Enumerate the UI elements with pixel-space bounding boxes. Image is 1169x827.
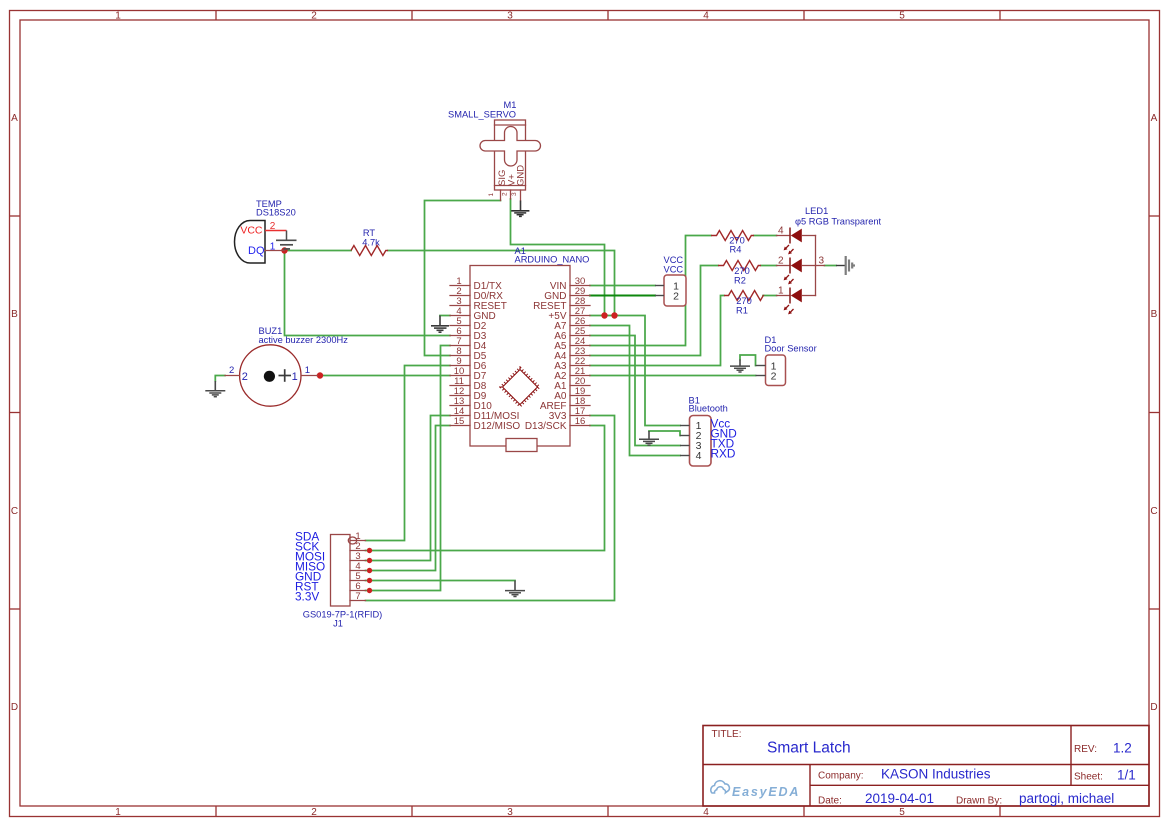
svg-text:1: 1 — [305, 365, 310, 376]
svg-text:M1: M1 — [504, 100, 517, 110]
wire J1 SCK to D13 — [366, 426, 605, 551]
wire D4 to J1 RST — [366, 346, 451, 591]
temperature sensor TEMP DS18S20 — [235, 199, 296, 263]
D1 pin 2 — [756, 371, 777, 383]
wire BUZ1 pin1 to D7 — [318, 375, 451, 377]
VCC pin 1 — [655, 281, 679, 293]
svg-text:D: D — [11, 702, 18, 713]
A1 pin 24 A5 — [554, 336, 590, 352]
A1 pin 8 D5 — [450, 346, 487, 362]
servo pin 1 SIG — [488, 190, 501, 201]
svg-text:KASON Industries: KASON Industries — [881, 767, 991, 782]
junction BUZ1 pin1 — [317, 372, 323, 378]
svg-text:1: 1 — [488, 193, 495, 197]
svg-text:2019-04-01: 2019-04-01 — [865, 791, 934, 806]
A1 pin 4 GND — [450, 306, 496, 322]
svg-text:5: 5 — [899, 807, 905, 818]
ground at D1 pin 1 — [730, 360, 750, 373]
svg-text:Bluetooth: Bluetooth — [689, 404, 728, 414]
svg-text:DS18S20: DS18S20 — [256, 208, 296, 218]
B1 pin 1 Vcc — [680, 417, 730, 433]
wire B1 GND jog — [649, 431, 680, 436]
svg-text:REV:: REV: — [1074, 744, 1097, 755]
wire A4 to R2 — [590, 266, 718, 356]
wire TEMP DQ to RT left — [285, 250, 352, 252]
A1 pin 29 GND — [544, 286, 590, 302]
A1 USB connector — [506, 439, 537, 452]
svg-text:TITLE:: TITLE: — [712, 729, 742, 740]
svg-text:2: 2 — [673, 291, 679, 303]
resistor R4 270 — [711, 231, 754, 255]
TEMP pin 2 — [265, 221, 287, 232]
LED1 element pin 4 — [777, 226, 816, 255]
ground at servo GND pin — [511, 201, 529, 217]
wire GND4 jog — [440, 315, 450, 317]
svg-text:J1: J1 — [333, 619, 343, 629]
wire A3 to R1 — [590, 296, 724, 366]
svg-text:4: 4 — [703, 11, 709, 22]
svg-text:4: 4 — [703, 807, 709, 818]
wire D11 to J1 MOSI — [366, 416, 451, 561]
A1 pin 15 D12/MISO — [450, 416, 520, 432]
svg-text:R2: R2 — [734, 276, 746, 286]
VCC pin 2 — [655, 291, 679, 303]
wire J1 3.3V to 3V3 — [366, 416, 615, 601]
A1 pin 2 D0/RX — [450, 286, 503, 302]
A1 pin 3 RESET — [450, 296, 507, 312]
svg-text:EasyEDA: EasyEDA — [732, 785, 800, 799]
J1 pin 1 circle — [348, 537, 356, 544]
svg-text:15: 15 — [454, 416, 465, 427]
svg-text:R1: R1 — [736, 306, 748, 316]
svg-text:1: 1 — [270, 242, 276, 253]
A1 pin 28 RESET — [533, 296, 590, 312]
svg-text:partogi, michael: partogi, michael — [1019, 791, 1114, 806]
resistor RT 4.7k — [351, 228, 388, 256]
svg-text:2: 2 — [311, 11, 317, 22]
A1 pin 11 D8 — [450, 376, 487, 392]
junction J1 pin4 — [367, 568, 372, 573]
svg-text:1: 1 — [778, 286, 784, 297]
J1 pin 4 MISO — [295, 560, 366, 574]
svg-text:2: 2 — [270, 221, 276, 232]
wire VIN to VCC pin1 — [590, 285, 655, 287]
svg-text:Smart Latch: Smart Latch — [767, 740, 851, 757]
TITLEBLOCK — [703, 726, 1149, 807]
A1 pin 10 D7 — [450, 366, 487, 382]
A1 pin 1 D1/TX — [450, 276, 502, 292]
svg-text:Sheet:: Sheet: — [1074, 772, 1103, 783]
A1 pin 16 D13/SCK — [525, 416, 590, 432]
wire BUZ1 pin2 to ground — [215, 376, 225, 382]
wire TEMP DQ down to D3 — [285, 251, 451, 336]
A1 pin 7 D4 — [450, 336, 487, 352]
A1 pin 13 D10 — [450, 396, 492, 412]
A1 pin 22 A3 — [554, 356, 590, 372]
svg-text:C: C — [11, 506, 18, 517]
A1 pin 18 AREF — [540, 396, 590, 412]
svg-text:2: 2 — [771, 371, 777, 383]
wire LED pin3 to ground — [825, 265, 837, 267]
svg-text:D12/MISO: D12/MISO — [474, 421, 521, 432]
svg-text:3.3V: 3.3V — [295, 590, 319, 604]
junction TEMP DQ — [281, 247, 287, 253]
svg-text:2: 2 — [778, 256, 784, 267]
svg-text:φ5 RGB Transparent: φ5 RGB Transparent — [795, 217, 882, 227]
svg-text:RXD: RXD — [711, 447, 736, 461]
svg-text:R4: R4 — [730, 245, 742, 255]
B1 pin 4 RXD — [680, 447, 735, 463]
svg-text:DQ: DQ — [248, 245, 265, 257]
svg-text:16: 16 — [575, 416, 586, 427]
ground at TEMP pin 2 — [276, 231, 297, 249]
ground at LED1 pin 3 — [846, 256, 855, 275]
svg-text:D13/SCK: D13/SCK — [525, 421, 567, 432]
J1 pin 2 SCK — [295, 540, 366, 554]
D1 pin 1 — [756, 361, 777, 373]
LED1 common bus and pin 3 — [816, 236, 825, 296]
svg-text:active buzzer 2300Hz: active buzzer 2300Hz — [259, 335, 349, 345]
wire D6 to J1 SDA — [366, 366, 451, 541]
LED1 element pin 1 — [777, 286, 816, 315]
svg-text:1: 1 — [115, 807, 121, 818]
svg-text:A: A — [11, 113, 18, 124]
servo pin 2 V+ — [502, 190, 511, 199]
svg-text:VCC: VCC — [664, 265, 684, 275]
svg-text:B: B — [11, 309, 18, 320]
wire R4 to LED pin4 — [754, 235, 777, 237]
svg-text:B: B — [1151, 309, 1158, 320]
svg-text:4: 4 — [696, 450, 702, 462]
BUZ1 pin 2 — [225, 365, 248, 383]
servo motor M1 SMALL_SERVO — [448, 100, 541, 190]
svg-text:VCC: VCC — [664, 255, 684, 265]
J1 pin 6 RST — [295, 580, 366, 594]
wire +5V to B1 Vcc — [590, 316, 680, 426]
ground at J1 pin 5 — [505, 581, 525, 597]
J1 pin 7 3.3V — [295, 590, 366, 604]
svg-text:C: C — [1150, 506, 1157, 517]
ground at A1 pin 4 GND — [431, 316, 449, 333]
svg-text:Company:: Company: — [818, 771, 864, 782]
A1 pin 19 A0 — [554, 386, 590, 402]
LED LED1 RGB — [795, 206, 882, 227]
svg-text:2: 2 — [229, 365, 234, 376]
junction J1 pin6 — [367, 588, 372, 593]
svg-text:1: 1 — [115, 11, 121, 22]
A1 pin 12 D9 — [450, 386, 487, 402]
wire J1 GND to ground — [366, 580, 516, 582]
resistor R2 270 — [718, 261, 761, 286]
microcontroller A1 ARDUINO_NANO — [470, 246, 589, 446]
svg-text:D: D — [1150, 702, 1157, 713]
wire A6 to B1 TXD — [590, 336, 680, 446]
bluetooth module B1 — [689, 396, 728, 467]
A1 pin 23 A4 — [554, 346, 590, 362]
title block frame — [703, 726, 1149, 807]
wire servo V+ to +5V junction — [511, 199, 605, 316]
wire A5 to R4 — [590, 236, 711, 346]
svg-text:270: 270 — [736, 296, 752, 306]
junction J1 pin2 — [367, 548, 372, 553]
wire R1 to LED pin1 — [763, 295, 777, 297]
wire GND29 to VCC pin2 — [590, 294, 655, 296]
svg-text:Door Sensor: Door Sensor — [765, 344, 817, 354]
A1 pin 17 3V3 — [549, 406, 590, 422]
svg-text:A: A — [1151, 113, 1158, 124]
junction J1 pin5 — [367, 578, 372, 583]
svg-text:4: 4 — [778, 226, 784, 237]
ground at BUZ1 pin 2 — [205, 381, 225, 397]
A1 pin 21 A2 — [554, 366, 590, 382]
TEMP pin 1 — [265, 242, 285, 253]
svg-text:3: 3 — [507, 807, 513, 818]
J1 pin 5 GND — [295, 570, 366, 584]
BUZ1 pin 1 — [292, 365, 318, 383]
svg-text:SMALL_SERVO: SMALL_SERVO — [448, 110, 516, 120]
ground at B1 pin 2 — [639, 431, 659, 445]
svg-text:2: 2 — [242, 371, 248, 383]
junction +5V a — [601, 312, 607, 318]
B1 pin 2 GND — [680, 427, 737, 443]
junction J1 pin3 — [367, 558, 372, 563]
J1 pin 3 MOSI — [295, 550, 366, 564]
A1 pin 30 VIN — [550, 276, 590, 292]
svg-text:1.2: 1.2 — [1113, 741, 1132, 756]
wire D1 pin1 to ground — [740, 355, 756, 366]
buzzer BUZ1 — [240, 326, 349, 406]
svg-text:270: 270 — [734, 266, 750, 276]
svg-text:RT: RT — [363, 228, 376, 238]
A1 pin 5 D2 — [450, 316, 487, 332]
A1 pin 20 A1 — [554, 376, 590, 392]
svg-text:LED1: LED1 — [805, 206, 828, 216]
A1 chip icon — [501, 368, 539, 406]
svg-text:5: 5 — [899, 11, 905, 22]
wire A7 to B1 RXD — [590, 326, 680, 456]
connector VCC — [664, 255, 687, 306]
svg-text:VCC: VCC — [240, 225, 263, 237]
EasyEDA logo — [711, 781, 800, 799]
wire R2 to LED pin2 — [761, 265, 777, 267]
wire servo SIG to D5 — [425, 201, 501, 356]
svg-text:3: 3 — [819, 256, 825, 267]
A1 pin 25 A6 — [554, 326, 590, 342]
svg-text:1: 1 — [292, 371, 298, 383]
svg-text:GND: GND — [516, 165, 527, 186]
svg-text:2: 2 — [502, 192, 509, 196]
RFID connector J1 GS019-7P-1 — [303, 535, 383, 629]
svg-text:1/1: 1/1 — [1117, 768, 1136, 783]
wire A2 to D1 pin2 — [590, 375, 756, 377]
J1 pin 1 SDA — [295, 530, 366, 544]
svg-text:3: 3 — [511, 192, 518, 196]
svg-text:7: 7 — [355, 591, 360, 602]
wire D12 to J1 MISO — [366, 426, 451, 571]
wire RT right to +5V junction — [388, 251, 615, 316]
servo pin 3 GND — [511, 190, 521, 201]
A1 pin 6 D3 — [450, 326, 487, 342]
resistor R1 270 — [724, 291, 763, 316]
svg-text:2: 2 — [311, 807, 317, 818]
svg-text:ARDUINO_NANO: ARDUINO_NANO — [515, 255, 590, 265]
LED1 element pin 2 — [777, 256, 816, 285]
A1 pin 27 +5V — [548, 306, 590, 322]
A1 pin 14 D11/MOSI — [450, 406, 519, 422]
svg-text:Drawn By:: Drawn By: — [956, 796, 1002, 807]
junction +5V b — [611, 312, 617, 318]
svg-text:3: 3 — [507, 11, 513, 22]
svg-text:Date:: Date: — [818, 796, 842, 807]
A1 pin 9 D6 — [450, 356, 487, 372]
door sensor D1 — [765, 335, 817, 386]
A1 pin 26 A7 — [554, 316, 590, 332]
B1 pin 3 TXD — [680, 437, 734, 453]
